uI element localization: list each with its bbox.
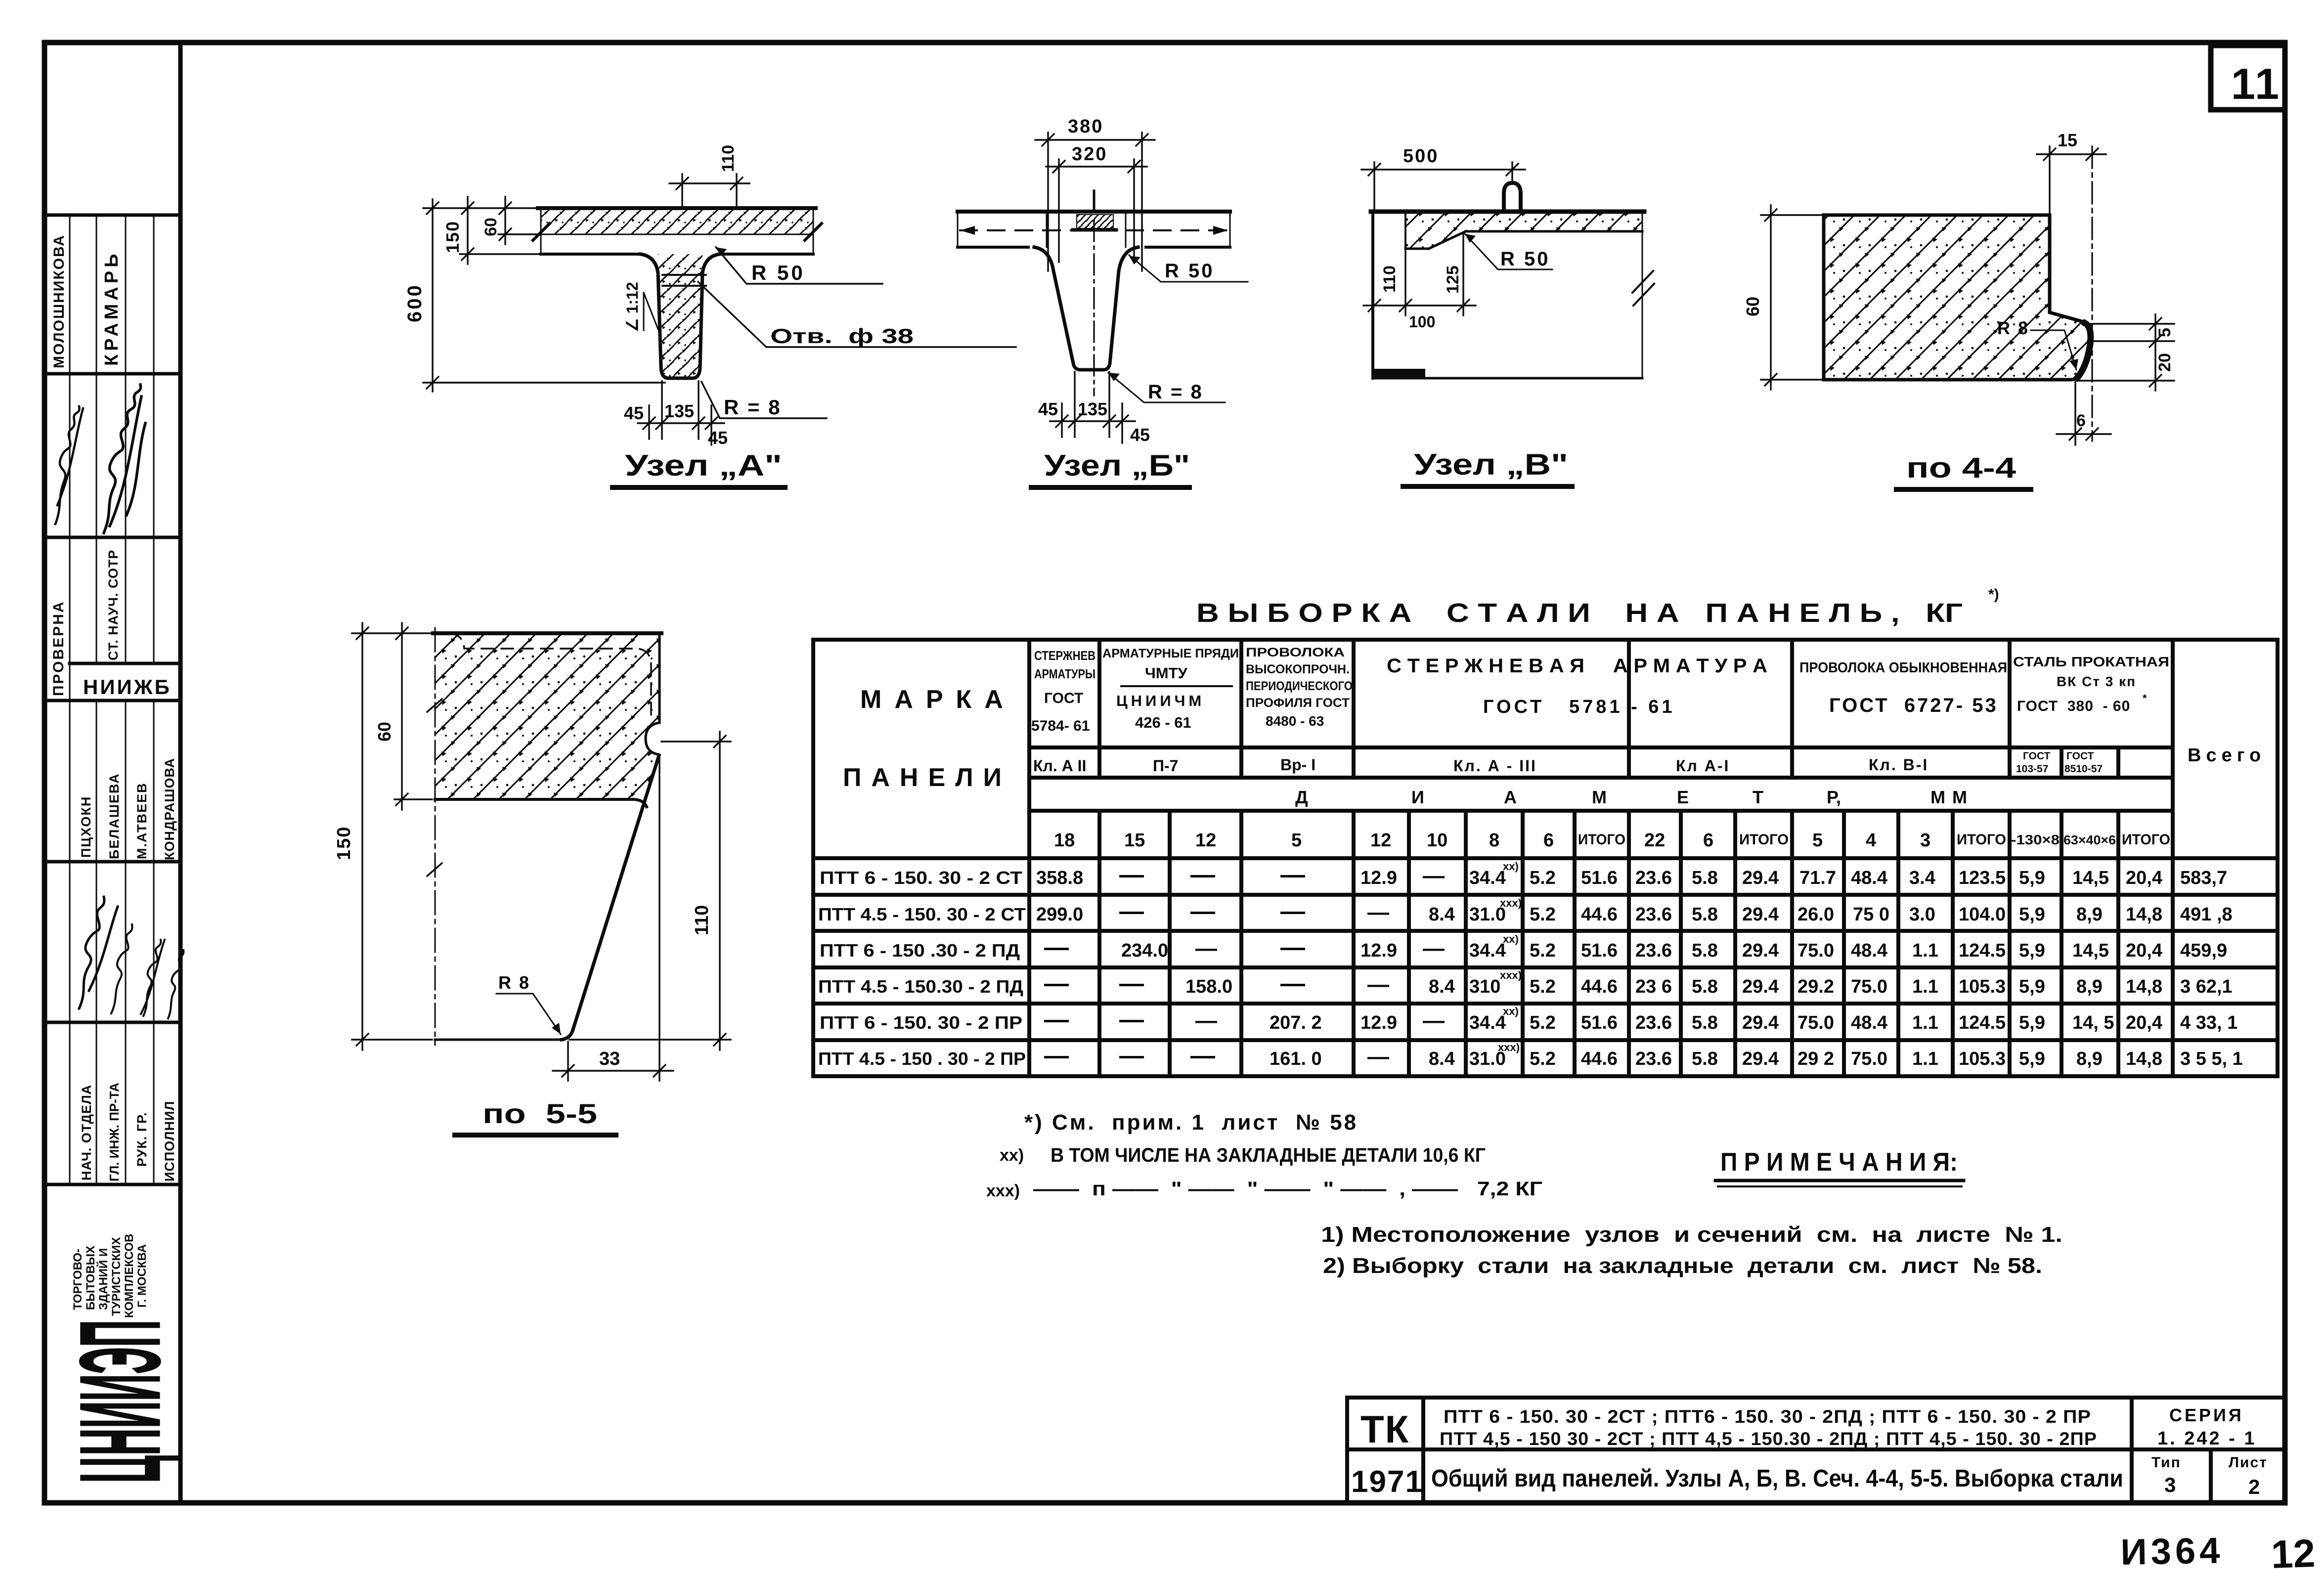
svg-text:Вр- I: Вр- I xyxy=(1280,756,1315,774)
node A label R 50 xyxy=(716,247,882,284)
svg-text:6: 6 xyxy=(2076,411,2086,430)
node V dim 500 xyxy=(1361,162,1525,210)
svg-text:В Ы Б О Р К А С Т А Л И: В Ы Б О Р К А С Т А Л И Н А П А Н Е Л Ь … xyxy=(1196,598,1963,628)
node V label R 50 xyxy=(1465,234,1552,269)
svg-text:СЕРИЯ: СЕРИЯ xyxy=(2169,1405,2244,1425)
svg-text:5.2: 5.2 xyxy=(1530,1049,1556,1069)
sec55 right edge with notch xyxy=(646,633,659,754)
node B strand dashed line xyxy=(960,229,1228,231)
svg-text:—: — xyxy=(1044,933,1069,961)
svg-text:—: — xyxy=(1044,969,1069,997)
node B slab outline xyxy=(958,212,1230,247)
svg-text:Г. МОСКВА: Г. МОСКВА xyxy=(135,1244,149,1308)
node A bottom dims 45 135 45 xyxy=(638,381,724,445)
svg-text:29.4: 29.4 xyxy=(1742,1012,1779,1033)
svg-text:R = 8: R = 8 xyxy=(724,395,782,419)
sec55 dim 110 xyxy=(570,732,731,1050)
svg-text:358.8: 358.8 xyxy=(1036,868,1083,888)
signature scribble 2 xyxy=(104,385,145,533)
svg-text:14,8: 14,8 xyxy=(2126,976,2162,997)
svg-text:Всего: Всего xyxy=(2188,745,2266,766)
svg-text:—: — xyxy=(1280,897,1305,925)
header ДИАМЕТР ММ xyxy=(1295,787,1974,807)
svg-text:КРАМАРЬ: КРАМАРЬ xyxy=(101,251,122,366)
svg-text:1. 242 - 1: 1. 242 - 1 xyxy=(2157,1428,2257,1449)
node V lifting loop xyxy=(1504,183,1521,212)
svg-text:8,9: 8,9 xyxy=(2076,904,2103,925)
svg-text:14,8: 14,8 xyxy=(2126,904,2162,925)
svg-text:—: — xyxy=(1423,936,1445,961)
svg-text:ПТТ 6 - 150. 30 - 2СТ ; ПТ: ПТТ 6 - 150. 30 - 2СТ ; ПТТ6 - 150. 30 -… xyxy=(1444,1406,2091,1427)
node B label R 50 xyxy=(1129,255,1248,282)
svg-text:ВК Ст 3 кп: ВК Ст 3 кп xyxy=(2057,674,2136,689)
svg-text:583,7: 583,7 xyxy=(2180,868,2227,888)
node B embed plate xyxy=(1077,215,1113,228)
svg-text:380: 380 xyxy=(1068,116,1103,137)
svg-text:ЗДАНИЙ И: ЗДАНИЙ И xyxy=(96,1248,110,1310)
svg-text:—: — xyxy=(1367,1045,1389,1069)
svg-text:3 62,1: 3 62,1 xyxy=(2180,976,2233,997)
svg-text:299.0: 299.0 xyxy=(1036,904,1083,925)
svg-text:600: 600 xyxy=(404,283,426,322)
svg-text:51.6: 51.6 xyxy=(1581,868,1618,888)
svg-text:ПРОФИЛЯ ГОСТ: ПРОФИЛЯ ГОСТ xyxy=(1246,696,1350,710)
svg-text:АРМАТУРНЫЕ ПРЯДИ: АРМАТУРНЫЕ ПРЯДИ xyxy=(1102,647,1239,660)
svg-text:ГЛ. ИНЖ. ПР-ТА: ГЛ. ИНЖ. ПР-ТА xyxy=(107,1083,122,1182)
svg-text:105.3: 105.3 xyxy=(1959,976,2006,997)
svg-text:125: 125 xyxy=(1444,265,1462,294)
svg-text:8,9: 8,9 xyxy=(2076,1049,2103,1069)
svg-text:—: — xyxy=(1119,969,1144,997)
svg-text:ГОСТ: ГОСТ xyxy=(2066,750,2094,762)
node A slab outline xyxy=(538,208,816,254)
svg-text:ИТОГО: ИТОГО xyxy=(1957,832,2006,848)
svg-text:100: 100 xyxy=(1409,313,1435,331)
svg-text:4 33, 1: 4 33, 1 xyxy=(2180,1012,2237,1033)
institute text block xyxy=(71,1234,149,1318)
sec55 top edge xyxy=(433,631,661,635)
svg-text:14,5: 14,5 xyxy=(2072,868,2109,888)
svg-text:18: 18 xyxy=(1054,830,1075,851)
sec55 hatch bottom boundary xyxy=(435,799,647,807)
svg-text:Узел „В": Узел „В" xyxy=(1414,448,1568,481)
sec44 dim 60 xyxy=(1761,205,1822,390)
header col 18 xyxy=(1031,648,1096,775)
svg-text:320: 320 xyxy=(1072,144,1107,165)
svg-text:Узел „Б": Узел „Б" xyxy=(1044,449,1190,482)
node A slab end break marks xyxy=(533,223,550,240)
svg-text:МОЛОШНИКОВА: МОЛОШНИКОВА xyxy=(51,234,67,368)
svg-text:5.8: 5.8 xyxy=(1692,1049,1718,1069)
node B dim 320 xyxy=(1046,159,1147,262)
svg-text:5784- 61: 5784- 61 xyxy=(1031,718,1090,734)
svg-text:ПТТ 4.5 - 150. 30 - 2 СТ: ПТТ 4.5 - 150. 30 - 2 СТ xyxy=(818,904,1026,924)
sec44 hatched body xyxy=(1824,215,2091,380)
svg-text:51.6: 51.6 xyxy=(1581,1012,1618,1033)
svg-text:8.4: 8.4 xyxy=(1429,976,1455,997)
svg-text:ххх): ххх) xyxy=(986,1182,1020,1200)
svg-text:45: 45 xyxy=(708,428,728,448)
svg-text:3: 3 xyxy=(1920,830,1930,851)
svg-text:5,9: 5,9 xyxy=(2019,976,2045,997)
svg-text:—: — xyxy=(1280,861,1305,888)
svg-text:44.6: 44.6 xyxy=(1581,904,1618,925)
svg-text:R 8: R 8 xyxy=(1997,318,2029,338)
svg-text:КОНДРАШОВА: КОНДРАШОВА xyxy=(162,758,177,860)
svg-text:по 4-4: по 4-4 xyxy=(1906,452,2016,484)
svg-text:48.4: 48.4 xyxy=(1851,940,1887,961)
svg-text:БЕЛАШЕВА: БЕЛАШЕВА xyxy=(107,773,122,859)
svg-text:КОМПЛЕКСОВ: КОМПЛЕКСОВ xyxy=(123,1234,136,1318)
svg-text:135: 135 xyxy=(1078,399,1107,419)
svg-text:ПРОВОЛОКА ОБЫКНОВЕННАЯ: ПРОВОЛОКА ОБЫКНОВЕННАЯ xyxy=(1799,660,2007,676)
svg-text:5: 5 xyxy=(2155,328,2174,337)
svg-text:26.0: 26.0 xyxy=(1798,904,1834,925)
svg-text:5.2: 5.2 xyxy=(1530,1012,1556,1033)
svg-text:3.4: 3.4 xyxy=(1909,868,1935,888)
svg-text:29 2: 29 2 xyxy=(1798,1049,1834,1069)
svg-text:ИТОГО: ИТОГО xyxy=(1739,832,1789,848)
svg-text:ПТТ 6 - 150 .30 - 2 ПД: ПТТ 6 - 150 .30 - 2 ПД xyxy=(820,940,1020,961)
svg-text:ПАНЕЛИ: ПАНЕЛИ xyxy=(843,763,1011,792)
svg-text:5.2: 5.2 xyxy=(1530,904,1556,925)
sec55 bottom edge xyxy=(435,1039,564,1041)
svg-text:8.4: 8.4 xyxy=(1429,1049,1455,1069)
svg-text:R 50: R 50 xyxy=(1165,260,1215,282)
svg-text:РУК. ГР.: РУК. ГР. xyxy=(134,1112,149,1167)
svg-text:—: — xyxy=(1119,897,1144,925)
svg-text:60: 60 xyxy=(374,722,395,742)
svg-text:И364: И364 xyxy=(2120,1530,2224,1573)
sec55 dim 60 xyxy=(395,623,432,810)
svg-text:ЦНИИЭП: ЦНИИЭП xyxy=(56,1320,183,1483)
svg-text:1) Местоположение узлов и се: 1) Местоположение узлов и сечений см. на… xyxy=(1321,1223,2062,1247)
svg-text:29.4: 29.4 xyxy=(1742,940,1779,961)
svg-text:—: — xyxy=(1280,933,1305,961)
svg-text:110: 110 xyxy=(719,145,738,172)
sec55 break ticks xyxy=(427,699,442,712)
svg-text:Кл. В-I: Кл. В-I xyxy=(1869,756,1929,774)
signature scribble 1 xyxy=(55,406,83,524)
svg-text:5.2: 5.2 xyxy=(1530,868,1556,888)
sec44 dim 15 xyxy=(2037,146,2106,213)
signature scribble 5 xyxy=(141,940,165,1016)
svg-text:1.1: 1.1 xyxy=(1912,1049,1938,1069)
svg-text:5,9: 5,9 xyxy=(2019,868,2045,888)
svg-text:Лист: Лист xyxy=(2229,1454,2268,1471)
svg-text:ПТТ 6 - 150. 30 - 2 ПР: ПТТ 6 - 150. 30 - 2 ПР xyxy=(820,1012,1022,1033)
svg-text:Кл. А II: Кл. А II xyxy=(1033,757,1086,775)
svg-text:ВЫСОКОПРОЧН.: ВЫСОКОПРОЧН. xyxy=(1246,662,1350,676)
svg-text:ПРОВЕРНА: ПРОВЕРНА xyxy=(50,600,67,696)
svg-text:ТОРГОВО-: ТОРГОВО- xyxy=(71,1249,85,1310)
svg-text:Д: Д xyxy=(1295,787,1308,807)
svg-text:НИИЖБ: НИИЖБ xyxy=(83,675,172,699)
node B label R=8 xyxy=(1108,373,1225,402)
svg-text:491 ,8: 491 ,8 xyxy=(2180,904,2233,925)
svg-text:—: — xyxy=(1190,1042,1215,1069)
svg-text:110: 110 xyxy=(692,905,712,935)
svg-text:ххх): ххх) xyxy=(1500,969,1522,981)
svg-text:75 0: 75 0 xyxy=(1853,904,1889,925)
svg-text:8: 8 xyxy=(1489,830,1499,851)
svg-text:ММ: ММ xyxy=(1930,787,1974,807)
svg-text:103-57: 103-57 xyxy=(2016,763,2048,775)
svg-text:Отв. ф 38: Отв. ф 38 xyxy=(770,324,914,348)
svg-text:И: И xyxy=(1411,787,1424,807)
svg-text:—: — xyxy=(1119,861,1144,888)
svg-text:Кл А-I: Кл А-I xyxy=(1676,757,1730,775)
signature scribble 4 xyxy=(111,924,132,1013)
svg-text:34.4: 34.4 xyxy=(1469,1012,1506,1033)
svg-text:10: 10 xyxy=(1427,830,1447,851)
svg-text:R 50: R 50 xyxy=(1500,248,1550,270)
svg-text:АРМАТУРЫ: АРМАТУРЫ xyxy=(1034,666,1096,681)
svg-text:123.5: 123.5 xyxy=(1959,868,2006,888)
signature scribble 3 xyxy=(79,897,118,1008)
node V step dims xyxy=(1363,232,1476,315)
node A rib outline xyxy=(640,254,720,378)
svg-text:М.АТВЕЕВ: М.АТВЕЕВ xyxy=(134,782,149,859)
svg-text:48.4: 48.4 xyxy=(1851,1012,1887,1033)
svg-text:БЫТОВЫХ: БЫТОВЫХ xyxy=(84,1246,97,1310)
svg-text:5.8: 5.8 xyxy=(1692,904,1718,925)
svg-text:—: — xyxy=(1367,900,1389,924)
svg-text:104.0: 104.0 xyxy=(1959,904,2006,925)
svg-text:ПРОВОЛОКА: ПРОВОЛОКА xyxy=(1246,646,1345,659)
svg-text:75.0: 75.0 xyxy=(1798,940,1834,961)
svg-text:R = 8: R = 8 xyxy=(1148,381,1203,403)
svg-text:12: 12 xyxy=(1195,830,1216,851)
svg-text:12.9: 12.9 xyxy=(1360,1012,1397,1033)
svg-text:ПТТ 4,5 - 150 30 - 2СТ ; П: ПТТ 4,5 - 150 30 - 2СТ ; ПТТ 4,5 - 150.3… xyxy=(1440,1429,2097,1449)
svg-text:ГОСТ 380 - 60: ГОСТ 380 - 60 xyxy=(2017,698,2130,714)
svg-text:29.4: 29.4 xyxy=(1742,1049,1779,1069)
svg-text:124.5: 124.5 xyxy=(1959,940,2006,961)
svg-text:хх): хх) xyxy=(1503,1005,1519,1017)
header cols 15 12 xyxy=(1102,647,1239,775)
svg-text:14, 5: 14, 5 xyxy=(2072,1012,2114,1033)
svg-text:R 50: R 50 xyxy=(751,261,805,284)
svg-text:ПТТ 4.5 - 150.30 - 2 ПД: ПТТ 4.5 - 150.30 - 2 ПД xyxy=(818,976,1023,997)
svg-text:29.2: 29.2 xyxy=(1798,976,1834,997)
svg-text:12: 12 xyxy=(2270,1531,2316,1577)
svg-text:1.1: 1.1 xyxy=(1912,1012,1938,1033)
node A dim 150 xyxy=(460,197,541,264)
svg-text:23 6: 23 6 xyxy=(1635,976,1672,997)
sec55 slant edge xyxy=(562,755,659,1040)
svg-text:ПТТ 4.5 - 150 . 30 - 2 ПР: ПТТ 4.5 - 150 . 30 - 2 ПР xyxy=(818,1049,1026,1069)
svg-text:158.0: 158.0 xyxy=(1185,976,1232,997)
svg-text:234.0: 234.0 xyxy=(1121,940,1168,961)
svg-text:*) См. прим. 1 лист № 58: *) См. прим. 1 лист № 58 xyxy=(1024,1110,1358,1135)
svg-text:60: 60 xyxy=(1743,297,1763,316)
svg-text:150: 150 xyxy=(442,220,463,253)
svg-text:Е: Е xyxy=(1677,787,1689,807)
svg-text:207. 2: 207. 2 xyxy=(1270,1012,1322,1033)
svg-text:ПЦХОКН: ПЦХОКН xyxy=(79,796,93,858)
svg-text:—: — xyxy=(1195,1008,1217,1033)
svg-text:ГОСТ 6727- 53: ГОСТ 6727- 53 xyxy=(1829,695,1998,716)
node A label R=8 xyxy=(702,382,827,418)
svg-text:110: 110 xyxy=(1380,265,1399,293)
svg-text:—: — xyxy=(1195,936,1217,961)
svg-text:5.8: 5.8 xyxy=(1692,940,1718,961)
svg-text:135: 135 xyxy=(664,401,694,421)
svg-text:—: — xyxy=(1190,897,1215,925)
svg-text:29.4: 29.4 xyxy=(1742,868,1779,888)
svg-text:29.4: 29.4 xyxy=(1742,904,1779,925)
diameters row xyxy=(1054,830,2170,851)
svg-text:НАЧ. ОТДЕЛА: НАЧ. ОТДЕЛА xyxy=(79,1085,94,1181)
node A label Отв ф38 xyxy=(698,282,1016,347)
node B strand arrows xyxy=(960,226,975,235)
svg-text:МАРКА: МАРКА xyxy=(860,685,1016,714)
svg-text:*: * xyxy=(2143,692,2147,704)
svg-text:75.0: 75.0 xyxy=(1851,1049,1887,1069)
node V topping hatch xyxy=(1405,213,1642,249)
svg-text:Общий вид панелей. Узлы А, Б,: Общий вид панелей. Узлы А, Б, В. Сеч. 4-… xyxy=(1431,1465,2123,1492)
svg-text:ГОСТ: ГОСТ xyxy=(1044,690,1083,706)
svg-text:5.8: 5.8 xyxy=(1692,976,1718,997)
svg-text:ПЕРИОДИЧЕСКОГО: ПЕРИОДИЧЕСКОГО xyxy=(1246,679,1353,693)
svg-text:хх): хх) xyxy=(1000,1146,1024,1165)
sec44 axis line xyxy=(2091,146,2093,441)
sec55 dim 150 xyxy=(352,623,432,1050)
node V panel outline xyxy=(1371,212,1644,378)
svg-text:426 - 61: 426 - 61 xyxy=(1135,714,1191,731)
svg-text:5.2: 5.2 xyxy=(1530,940,1556,961)
svg-text:С Т Е Р Ж Н Е В А Я А Р М: С Т Е Р Ж Н Е В А Я А Р М А Т У Р А xyxy=(1387,655,1767,677)
svg-text:—: — xyxy=(1119,1006,1144,1033)
svg-text:R 8: R 8 xyxy=(498,972,530,993)
svg-text:63×40×6: 63×40×6 xyxy=(2063,832,2116,847)
svg-text:23.6: 23.6 xyxy=(1635,1012,1672,1033)
svg-text:459,9: 459,9 xyxy=(2180,940,2227,961)
svg-text:124.5: 124.5 xyxy=(1959,1012,2006,1033)
svg-text:15: 15 xyxy=(1124,830,1145,851)
svg-text:—: — xyxy=(1367,972,1389,997)
stamp sidebar rows xyxy=(44,215,180,1184)
svg-text:4: 4 xyxy=(1866,830,1876,851)
svg-text:8510-57: 8510-57 xyxy=(2064,763,2103,775)
svg-text:75.0: 75.0 xyxy=(1851,976,1887,997)
svg-text:М: М xyxy=(1592,787,1607,807)
svg-text:44.6: 44.6 xyxy=(1581,976,1618,997)
header col 5 xyxy=(1246,646,1353,774)
node V bearing pad xyxy=(1374,369,1425,377)
svg-text:150: 150 xyxy=(334,826,354,860)
sec55 dim 33 xyxy=(553,757,673,1081)
svg-text:—: — xyxy=(1423,1008,1445,1033)
node V break mark right xyxy=(1632,271,1653,293)
svg-text:П-7: П-7 xyxy=(1153,757,1178,775)
svg-text:12.9: 12.9 xyxy=(1360,868,1397,888)
node A slope symbol 1:12 xyxy=(643,293,645,330)
svg-text:ИСПОЛНИЛ: ИСПОЛНИЛ xyxy=(162,1101,177,1182)
svg-text:ТУРИСТСКИХ: ТУРИСТСКИХ xyxy=(110,1237,123,1316)
svg-text:ххх): ххх) xyxy=(1498,1041,1520,1053)
svg-text:44.6: 44.6 xyxy=(1581,1049,1618,1069)
svg-text:—: — xyxy=(1190,861,1215,888)
svg-text:Т: Т xyxy=(1753,787,1763,807)
svg-text:хх): хх) xyxy=(1503,933,1519,945)
svg-text:ЧМТУ: ЧМТУ xyxy=(1145,664,1188,682)
svg-text:ххх): ххх) xyxy=(1500,897,1522,909)
svg-text:В ТОМ ЧИСЛЕ НА ЗАКЛАДНЫЕ ДЕТАЛ: В ТОМ ЧИСЛЕ НА ЗАКЛАДНЫЕ ДЕТАЛИ 10,6 КГ xyxy=(1051,1144,1486,1166)
svg-text:310: 310 xyxy=(1469,976,1500,997)
svg-text:20: 20 xyxy=(2155,353,2174,372)
svg-text:5.8: 5.8 xyxy=(1692,1012,1718,1033)
node B dim 380 xyxy=(1035,132,1155,271)
svg-text:23.6: 23.6 xyxy=(1635,1049,1672,1069)
svg-text:5,9: 5,9 xyxy=(2019,1049,2045,1069)
svg-text:Р,: Р, xyxy=(1827,787,1841,807)
sec55 hidden dashed line xyxy=(451,633,651,721)
node A dim 110 top xyxy=(669,174,749,207)
table data rows xyxy=(820,860,2227,888)
svg-text:20,4: 20,4 xyxy=(2126,868,2162,888)
svg-text:12: 12 xyxy=(1370,830,1391,851)
svg-text:6: 6 xyxy=(1703,830,1713,851)
svg-text:хх): хх) xyxy=(1503,860,1519,873)
svg-text:5: 5 xyxy=(1812,830,1823,851)
svg-text:33: 33 xyxy=(599,1049,620,1069)
svg-text:—: — xyxy=(1044,1006,1069,1033)
svg-text:1.1: 1.1 xyxy=(1912,940,1938,961)
sec55 left axis line xyxy=(435,628,436,1045)
svg-text:ИТОГО: ИТОГО xyxy=(2122,832,2170,848)
svg-text:8480 - 63: 8480 - 63 xyxy=(1266,713,1324,729)
svg-text:8.4: 8.4 xyxy=(1429,904,1455,925)
svg-text:71.7: 71.7 xyxy=(1799,868,1836,888)
svg-text:СТАЛЬ ПРОКАТНАЯ: СТАЛЬ ПРОКАТНАЯ xyxy=(2013,654,2169,669)
svg-text:3 5 5, 1: 3 5 5, 1 xyxy=(2180,1049,2243,1069)
svg-text:—— п —— " —— " —— " —— ,: —— п —— " —— " —— " —— , —— 7,2 КГ xyxy=(1033,1178,1542,1200)
svg-text:—: — xyxy=(1119,1042,1144,1069)
signature scribble 6 xyxy=(168,950,183,1018)
svg-text:2: 2 xyxy=(2248,1475,2260,1498)
svg-text:5,9: 5,9 xyxy=(2019,904,2045,925)
svg-text:23.6: 23.6 xyxy=(1635,904,1672,925)
svg-text:—: — xyxy=(1280,969,1305,997)
svg-text:14,5: 14,5 xyxy=(2072,940,2109,961)
svg-text:—: — xyxy=(1423,864,1445,888)
svg-text:45: 45 xyxy=(1130,425,1150,445)
title block frame xyxy=(1347,1398,2285,1503)
stamp sidebar divider xyxy=(178,43,183,1503)
svg-text:3: 3 xyxy=(2164,1473,2176,1496)
svg-text:ГОСТ: ГОСТ xyxy=(2023,750,2051,762)
node B bottom dims 45 135 45 xyxy=(1050,372,1135,443)
svg-text:14,8: 14,8 xyxy=(2126,1049,2162,1069)
svg-text:Кл. А - III: Кл. А - III xyxy=(1453,757,1537,775)
svg-text:СТЕРЖНЕВ: СТЕРЖНЕВ xyxy=(1034,648,1096,663)
svg-text:29.4: 29.4 xyxy=(1742,976,1779,997)
svg-text:5.8: 5.8 xyxy=(1692,868,1718,888)
node A flange underside xyxy=(541,253,642,256)
svg-text:34.4: 34.4 xyxy=(1469,940,1506,961)
svg-text:22: 22 xyxy=(1644,830,1665,851)
svg-text:ТК: ТК xyxy=(1360,1407,1409,1451)
sec44 dim 6 xyxy=(2057,382,2111,445)
svg-text:23.6: 23.6 xyxy=(1635,940,1672,961)
svg-text:5.2: 5.2 xyxy=(1530,976,1556,997)
sec44 right dims 5 20 xyxy=(2076,314,2174,391)
svg-text:СТ. НАУЧ. СОТР: СТ. НАУЧ. СОТР xyxy=(106,550,121,660)
node A rib hatch xyxy=(658,254,702,378)
svg-text:105.3: 105.3 xyxy=(1959,1049,2006,1069)
